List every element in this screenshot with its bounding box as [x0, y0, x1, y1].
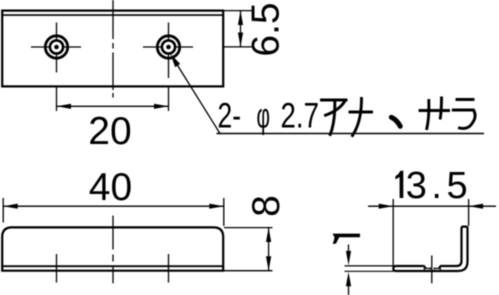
dimension 40 line [3, 205, 224, 207]
leader arrow at hole H2 [171, 54, 181, 67]
dimension 13.5 extension lines [393, 199, 468, 270]
front view outline [2, 227, 223, 270]
dimension 1 lower arrow [348, 286, 350, 295]
front view plate top edge [2, 265, 223, 267]
side view hole gap cover [424, 264, 441, 268]
top view bend line [2, 14, 223, 16]
dimension 1 text (rotated, drawn as path) [333, 234, 361, 244]
dimension 8 down arrow [266, 256, 271, 270]
dimension 8 line [268, 228, 270, 271]
svg-text:2.7: 2.7 [281, 97, 320, 136]
hole H2 crosshair [143, 23, 193, 79]
dimension 13.5 line [368, 205, 496, 207]
label kana A (ana) [322, 100, 347, 135]
front view hole centerline right [168, 254, 170, 283]
dimension 13.5 right arrow [469, 204, 484, 209]
label kana RA [453, 100, 475, 129]
leader line diagonal [172, 57, 220, 134]
hole H1 inner circle [50, 40, 63, 53]
side view hole centerline [431, 255, 433, 283]
top view outline [2, 11, 223, 87]
dimension 6.5 line [240, 11, 242, 47]
dimension 8 up arrow [266, 228, 271, 242]
svg-text:6.5: 6.5 [245, 2, 288, 56]
dimension 20 right arrow [154, 104, 169, 109]
svg-text:φ: φ [257, 97, 271, 136]
dimension 40 right arrow [209, 204, 224, 209]
side view hole chamfer ticks [424, 265, 426, 268]
svg-text:8: 8 [245, 195, 288, 217]
label kana NA [350, 99, 372, 136]
svg-text:40: 40 [89, 166, 132, 209]
svg-text:2-: 2- [218, 97, 242, 136]
dimension 6.5 down arrow [238, 33, 243, 47]
hole H2 inner circle [162, 40, 175, 53]
label comma [391, 117, 400, 126]
svg-text:3.5: 3.5 [406, 165, 472, 207]
front view hole centerline left [56, 254, 58, 283]
hole H1 crosshair [31, 23, 81, 73]
dimension 40 extension lines [3, 198, 224, 226]
dimension 8 extension lines [224, 228, 273, 271]
dimension 13.5 left arrow [379, 204, 394, 209]
hole H2 outer circle (countersink) [157, 36, 179, 58]
dimension 1 extension lines [345, 266, 394, 271]
dimension 20 extension lines [57, 87, 169, 111]
hole H1 center dot [54, 45, 59, 50]
dimension 40 left arrow [3, 204, 18, 209]
svg-text:20: 20 [88, 110, 131, 153]
dimension 6.5 up arrow [238, 11, 243, 25]
top view vertical centerline [112, 0, 114, 98]
leader underline [217, 133, 485, 135]
dimension 6.5 extension lines [224, 11, 253, 47]
dimension 13.5 text digit 1 (path, no foot serif) [395, 171, 403, 198]
side view hole hidden marks [424, 267, 440, 271]
front view centerline [112, 216, 114, 284]
hole H1 outer circle (countersink) [45, 36, 67, 58]
label kana SA [420, 98, 449, 129]
hole H2 center dot [166, 45, 171, 50]
dimension 20 line [57, 105, 169, 107]
dimension 1 upper arrow [348, 245, 350, 253]
side view L profile [393, 227, 467, 271]
dimension 20 left arrow [57, 104, 72, 109]
